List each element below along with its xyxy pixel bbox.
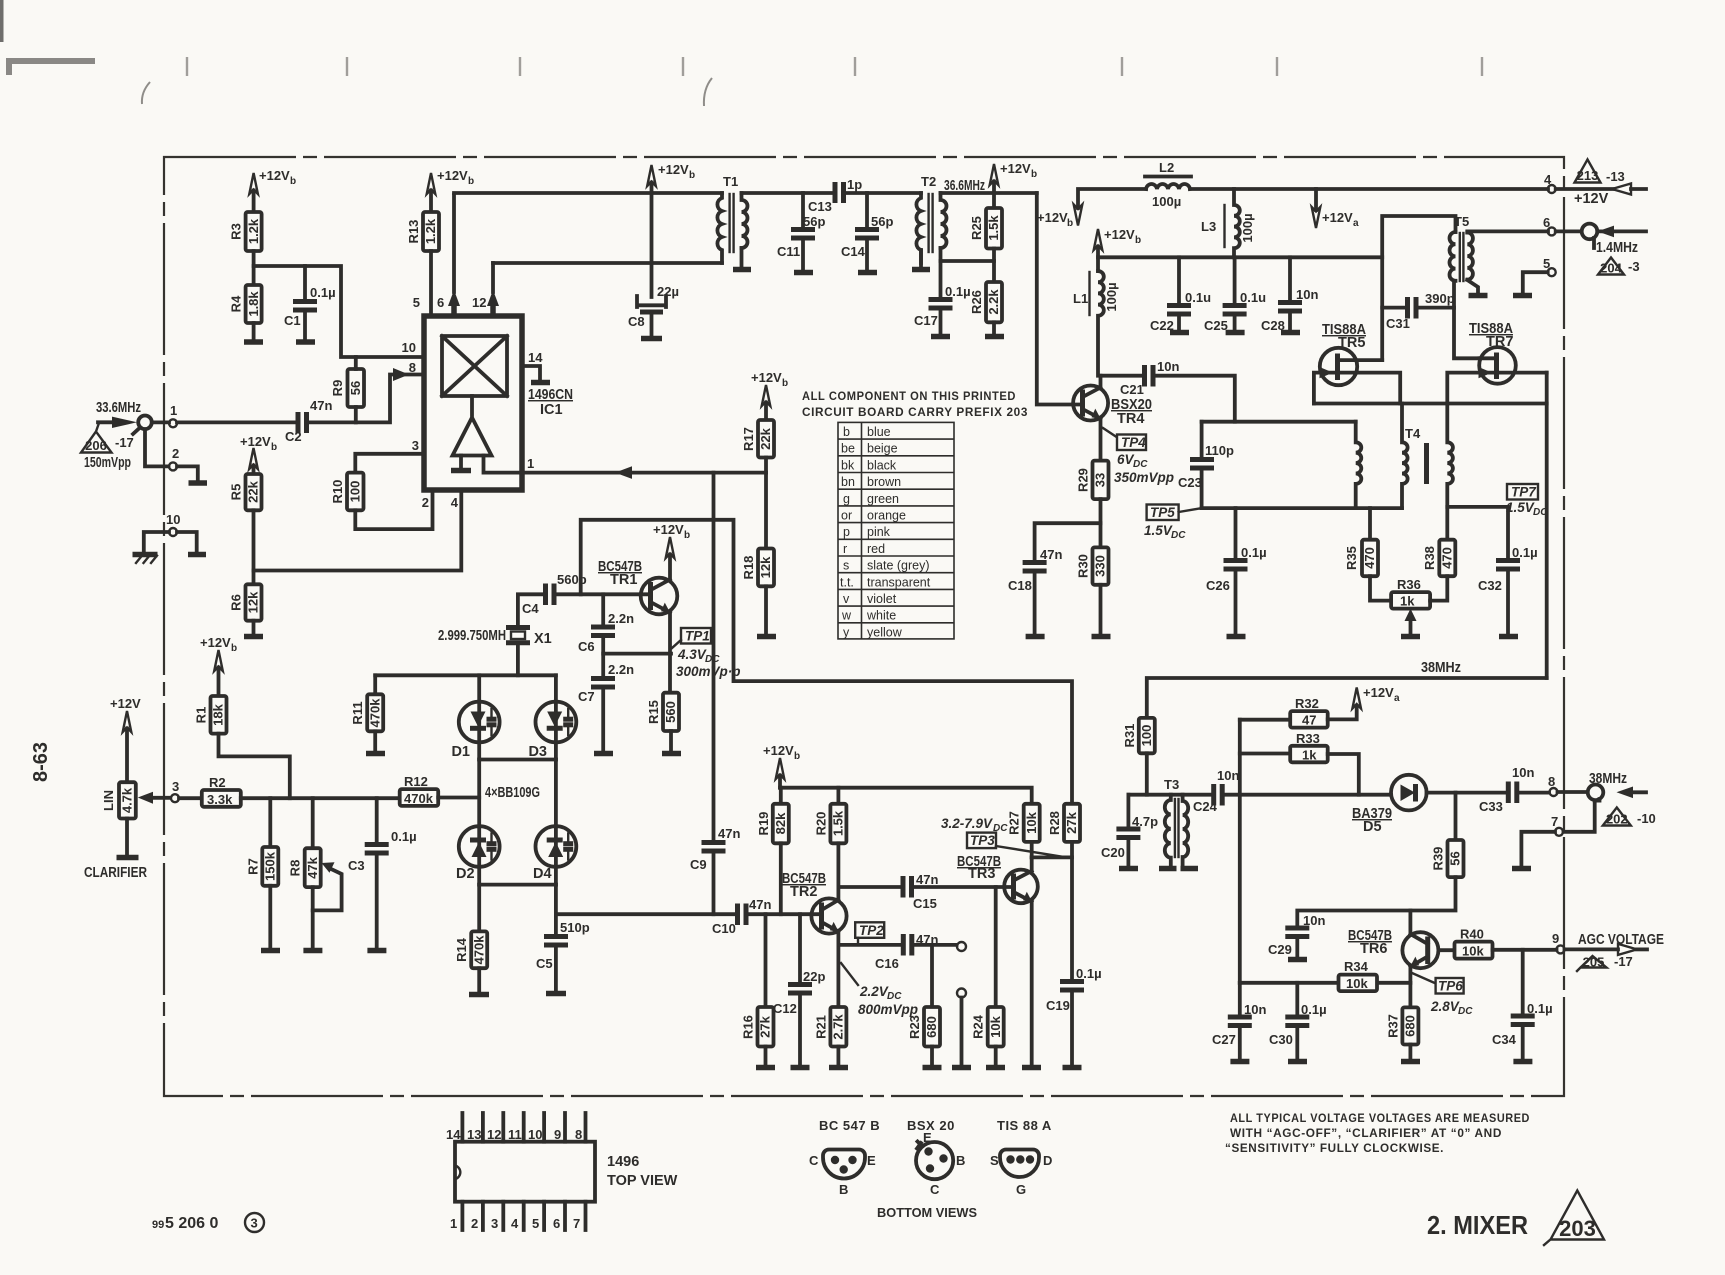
svg-text:4.3V: 4.3V [677,647,707,662]
capacitor C11 [777,214,825,259]
svg-text:TP6: TP6 [1438,979,1463,994]
+12Vb supply at R1 [200,635,237,696]
table row bn brown [841,475,901,489]
svg-text:b: b [684,530,690,541]
svg-text:+12V: +12V [1322,210,1353,225]
svg-text:330: 330 [1093,555,1108,577]
wire R16 top lead [764,914,768,1007]
wire collector node to R28 [1032,856,1072,860]
filled arrow 1.4MHz out [1598,226,1615,238]
svg-text:10k: 10k [1346,976,1368,991]
resistor R18 [741,549,774,587]
pin 12 arrow [487,263,499,316]
resistor R28 [1047,804,1080,842]
node terminal 10 [166,512,180,536]
wire terminal 2 stub [177,466,198,481]
svg-text:13: 13 [467,1127,481,1142]
varicap D3 [528,675,576,760]
svg-text:TR7: TR7 [1486,334,1513,350]
wire C6 junction drop [601,594,605,624]
resistor R10 [330,473,364,511]
wire C25 top lead [1233,257,1237,303]
pin 6 arrow [448,195,460,316]
svg-text:TP4: TP4 [1121,435,1146,450]
wire R20 bottom to TR2 collector [837,843,841,898]
wire R9 top to pin10 line [354,357,358,369]
svg-text:1: 1 [450,1216,457,1231]
ground bar C29 [1288,957,1307,963]
svg-text:+12V: +12V [1363,685,1394,700]
svg-text:1.5k: 1.5k [831,810,846,836]
svg-text:TR6: TR6 [1360,941,1387,957]
wire R38 to R36 [1430,576,1447,600]
resistor R38 [1422,540,1455,577]
wire C16 to link terminal [914,943,957,947]
svg-text:11: 11 [508,1127,522,1142]
svg-text:22k: 22k [758,427,773,449]
svg-text:C34: C34 [1492,1032,1517,1047]
pinout BSX20 can [916,1142,953,1180]
resistor R35 [1344,508,1378,576]
wire C34 to ground [1521,1027,1525,1060]
wire C20 to ground [1127,840,1131,867]
svg-text:R10: R10 [330,480,345,504]
svg-text:R16: R16 [741,1015,756,1039]
svg-text:56p: 56p [871,214,893,229]
ground bar terminal 7 [1512,866,1531,872]
TP6 voltage 2.8VDC [1430,999,1473,1017]
svg-text:yellow: yellow [867,625,903,639]
svg-text:TP2: TP2 [859,923,884,938]
svg-text:47n: 47n [310,398,332,413]
ground bar R24 [986,1065,1005,1071]
wire C9 drop from pin1 bus [712,473,716,840]
svg-text:R34: R34 [1344,959,1369,974]
resistor R15 [646,693,679,731]
registration tick 4 [682,57,684,76]
pin 14 stub and ground [522,350,550,383]
wire TR2 emitter to C16 [838,943,900,947]
registration tick 6 [1121,57,1123,76]
T3 top rail [1128,793,1210,797]
inductor L1 [1073,271,1119,376]
38MHz feed wire [1147,678,1547,718]
svg-text:D2: D2 [456,866,475,882]
table row tt transparent [840,575,931,589]
svg-text:E: E [923,1130,932,1145]
wire R27 to TR3 collector node [1030,842,1034,858]
DIP pin 7 [573,1202,586,1231]
svg-text:R29: R29 [1076,468,1091,492]
svg-text:22µ: 22µ [657,284,679,299]
svg-text:10n: 10n [1512,765,1534,780]
+12Vb supply at R5 [240,434,277,474]
wire jack to terminal 1 [152,420,169,424]
wire D1-D3 link [479,758,556,762]
ground bar C5 [546,991,566,997]
TR5 labels [1322,322,1366,351]
svg-text:22p: 22p [803,969,825,984]
registration tick 3 [519,57,521,76]
svg-text:R26: R26 [969,290,984,314]
capacitor C12 [773,969,825,1016]
svg-text:100µ: 100µ [1104,282,1119,311]
svg-text:8: 8 [575,1127,582,1142]
svg-text:2.2n: 2.2n [608,662,634,677]
svg-text:1k: 1k [1400,594,1415,609]
resistor R17 [741,420,774,458]
wire C25 to ground [1233,316,1237,330]
svg-text:y: y [843,625,850,639]
svg-text:E: E [867,1153,876,1168]
ground bar R11 [366,751,385,757]
svg-text:R5: R5 [229,484,244,501]
wire node to C18 [1035,523,1101,560]
sheet ref triangle 213 [1575,160,1601,184]
wire bus to R18 [764,473,768,549]
collector supply rail TR2 TR3 [780,788,1032,804]
svg-text:R30: R30 [1076,554,1091,578]
svg-text:99: 99 [152,1219,164,1231]
svg-text:X1: X1 [534,631,552,647]
capacitor C20 [1101,814,1158,860]
svg-text:D1: D1 [451,744,470,760]
svg-text:0.1µ: 0.1µ [1512,545,1538,560]
wire terminal 10 left [144,532,169,552]
svg-text:9: 9 [1552,931,1559,946]
svg-text:2: 2 [172,446,179,461]
wire C28 to ground [1288,313,1292,330]
coax connector 38MHz [1588,785,1604,801]
table row p pink [843,525,891,539]
table row g green [843,492,899,506]
svg-text:10: 10 [402,340,416,355]
wire R8 top lead [311,798,315,848]
svg-text:R37: R37 [1385,1014,1400,1038]
wire connector to terminal 7 [1564,801,1595,832]
wire C22 top lead [1177,257,1181,303]
resistor R11 [350,694,383,731]
wire C34 drop [1521,950,1525,1014]
svg-text:C3: C3 [348,858,365,873]
svg-text:B: B [956,1153,965,1168]
resistor R21 [813,1007,846,1047]
svg-text:R9: R9 [330,380,345,397]
wire R3 to R4 [252,251,256,285]
stray pencil arc 1 [142,82,150,104]
DIP pin 13 [467,1113,483,1142]
svg-text:v: v [843,592,850,606]
TR1 labels [598,559,642,588]
capacitor C3 [348,829,417,873]
wire C31 right lead to T5 bottom [1418,306,1454,310]
transformer T4 [1356,404,1453,540]
wire 38MHz drop on right [1545,373,1549,678]
ground bar stub 2 [189,480,208,486]
svg-text:DC: DC [887,991,902,1002]
svg-text:b: b [843,425,850,439]
wire C20 drop [1127,795,1131,827]
svg-text:C18: C18 [1008,578,1032,593]
svg-text:205: 205 [1583,955,1605,970]
svg-text:DC: DC [1458,1006,1473,1017]
svg-text:C13: C13 [808,199,832,214]
svg-text:green: green [867,492,899,506]
svg-text:R27: R27 [1007,811,1022,835]
wire jack down to terminal 2 [145,429,169,466]
input jack [133,416,152,435]
svg-text:27k: 27k [758,1015,773,1037]
wire R6 to ground [252,621,256,634]
+12Vb supply at R17 [751,370,788,420]
svg-text:213: 213 [1577,168,1599,183]
resistor R20 [813,804,846,844]
wire T2 secondary top to R25 node [941,191,1037,195]
wire R14 to ground [477,968,481,992]
wire pin 12 to T1 primary bottom [493,261,722,265]
svg-text:0.1u: 0.1u [1240,290,1266,305]
svg-text:T4: T4 [1405,426,1421,441]
svg-text:D4: D4 [533,866,552,882]
ground bar R8 [303,948,322,954]
svg-text:C27: C27 [1212,1032,1236,1047]
svg-text:C31: C31 [1386,316,1410,331]
ground bar T3 primary [1159,866,1177,872]
svg-text:TR4: TR4 [1117,411,1144,427]
wire R9 bottom to input line [354,407,358,422]
svg-text:C9: C9 [690,857,707,872]
capacitor C16 [875,932,938,971]
ground bar C1 [296,339,315,345]
DIP pin 14 [446,1113,462,1142]
wire node to IC1 pin 4 [254,490,462,571]
svg-text:D: D [1043,1153,1052,1168]
ground bar R37 [1401,1059,1420,1065]
wire C1 top lead [303,266,307,299]
wire R40 to terminal 9 [1493,948,1557,952]
wire TR5 drain riser to T5 [1382,216,1455,360]
source rail under FETs [1314,402,1547,406]
wire R33 left lead [1240,752,1290,756]
wire C12 to ground [798,995,802,1065]
wire R23 to ground [930,1047,934,1066]
wire TR2 emitter [837,932,841,1008]
svg-text:8-63: 8-63 [30,742,52,782]
ground bar C28 [1281,330,1300,336]
potentiometer LIN 4.7k [101,782,170,818]
svg-text:BC 547 B: BC 547 B [819,1118,880,1133]
wire C14 to ground [865,240,869,270]
wire T1 secondary bottom [740,248,744,267]
open arrow +12V out [1612,184,1631,195]
svg-text:9: 9 [554,1127,561,1142]
svg-text:R28: R28 [1047,811,1062,835]
wire R29 to R30 [1099,499,1103,547]
chassis ground [133,555,158,564]
svg-text:C10: C10 [712,921,736,936]
svg-text:b: b [782,378,788,389]
svg-text:TR3: TR3 [968,866,995,882]
capacitor C14 [841,214,893,259]
svg-text:6: 6 [1543,215,1550,230]
svg-text:8: 8 [1548,774,1555,789]
svg-text:R20: R20 [813,812,828,836]
svg-text:R33: R33 [1296,731,1320,746]
svg-text:R13: R13 [406,220,421,244]
svg-text:110p: 110p [1205,443,1234,458]
wire R24 to ground [994,1047,998,1066]
svg-text:56: 56 [1448,851,1463,865]
svg-text:R36: R36 [1397,577,1421,592]
wire connector out [1597,229,1646,233]
svg-text:R6: R6 [229,594,244,611]
svg-text:CLARIFIER: CLARIFIER [84,865,147,881]
wire T2 secondary bottom to R25R26 node [941,248,995,261]
table row w white [841,609,896,623]
svg-text:100: 100 [348,481,363,503]
svg-text:5: 5 [413,295,420,310]
svg-text:27k: 27k [1064,811,1079,833]
inductor L3 [1201,189,1255,257]
wire 36.6MHz down to TR4 base [1037,193,1083,405]
svg-text:R31: R31 [1122,724,1137,748]
wire C9 to audio rail [712,853,716,914]
svg-text:12k: 12k [758,556,773,578]
svg-text:47n: 47n [749,897,771,912]
ground bar C12 [791,1065,810,1071]
wire C13 to T2 [846,191,922,195]
varicap top rail [375,673,556,677]
wire D2-D4 link [479,883,556,887]
wire C26 top lead [1234,508,1238,558]
wire R35 to R36 [1370,576,1391,600]
svg-text:C: C [930,1182,940,1197]
resistor R19 [756,804,789,844]
capacitor C6 [578,611,634,654]
resistor R26 [969,282,1002,322]
svg-text:33: 33 [1093,473,1108,487]
svg-text:TP5: TP5 [1150,505,1175,520]
open arrow AGC out [1565,944,1648,955]
svg-text:R38: R38 [1422,546,1437,570]
svg-text:C2: C2 [285,429,302,444]
resistor R12 [400,774,439,806]
wire C5 to ground [554,947,558,991]
svg-text:3.2-7.9V: 3.2-7.9V [941,816,993,831]
svg-text:s: s [843,559,849,573]
wire T1 secondary to C13 [742,191,832,195]
wire R16 to ground [764,1047,768,1066]
ground bar inside IC1 [451,468,471,474]
wire R23 top lead [930,945,934,1007]
wire C12 top lead [798,914,802,982]
+12Va supply drop [1312,189,1359,229]
wire R19 bottom to base rail [779,843,783,914]
capacitor C27 [1212,1002,1266,1047]
transformer T3 [1164,777,1188,866]
svg-text:1.8k: 1.8k [246,291,261,317]
svg-text:1.5k: 1.5k [986,215,1001,241]
svg-text:ALL TYPICAL VOLTAGE VOLTAGES A: ALL TYPICAL VOLTAGE VOLTAGES ARE MEASURE… [1230,1113,1530,1125]
transistor TR4 BSX20 [1073,386,1108,421]
IC1 amp right leg to pin 1 [484,456,523,473]
registration tick 8 [1481,57,1483,76]
capacitor C32 [1478,545,1538,593]
registration corner mark [9,61,95,75]
wire C33 to terminal 8 [1519,791,1549,795]
svg-text:+12V: +12V [653,522,684,537]
svg-text:-10: -10 [1637,811,1656,826]
wire T5 primary bottom to TR7 gate [1454,282,1480,358]
wire R17 bottom to bus [764,458,768,473]
tank box left lower lead [1200,470,1204,508]
ground bar stub 10 [188,552,206,558]
test point TP3 [941,816,1064,857]
svg-text:R2: R2 [209,775,226,790]
table row bk black [841,458,897,472]
TP7 voltage 1.5VDC [1506,500,1548,518]
svg-text:C19: C19 [1046,998,1070,1013]
svg-text:2. MIXER: 2. MIXER [1427,1210,1528,1240]
wire R37 to ground [1409,1045,1413,1060]
wire R7 top lead [268,798,272,847]
wire D4 to audio node [554,885,558,936]
FET TR5 TIS88A [1320,348,1383,385]
wire R4 to ground [252,323,256,340]
IC1 multiplier cell [442,336,507,396]
ground bar C30 [1288,1059,1307,1065]
svg-text:TOP VIEW: TOP VIEW [607,1173,678,1189]
TR2 labels [782,871,826,900]
capacitor C15 [903,872,938,911]
wire L2 to terminal 4 [1190,187,1548,191]
svg-text:or: or [841,509,852,523]
svg-text:6V: 6V [1117,452,1135,467]
svg-text:6: 6 [437,295,444,310]
node terminal 6 [1543,215,1556,235]
capacitor C2 [285,398,332,444]
resistor R6 [229,584,262,620]
svg-text:R7: R7 [245,858,260,875]
+12Vb supply at TR2 rail [763,743,800,788]
svg-text:14: 14 [528,350,543,365]
svg-text:2: 2 [471,1216,478,1231]
svg-text:C14: C14 [841,244,866,259]
svg-text:a: a [1394,693,1400,704]
wire C3 to ground [375,855,379,948]
ground bar R21 [829,1065,848,1071]
svg-text:1: 1 [170,403,177,418]
IC1 1496CN body [424,316,522,490]
wire TR3 collector [1030,857,1034,871]
tank box bottom wire [1202,506,1402,510]
resistor R27 [1007,804,1040,842]
ground bar R6 [244,634,263,640]
resistor R9 [330,369,364,407]
svg-text:18k: 18k [211,703,226,725]
svg-text:56: 56 [348,381,363,395]
svg-text:C30: C30 [1269,1032,1293,1047]
resistor R30 [1076,547,1109,584]
svg-text:LIN: LIN [101,790,116,811]
svg-text:6: 6 [553,1216,560,1231]
wire terminal 6 to connector [1556,229,1581,233]
resistor R16 [741,1007,774,1047]
svg-text:bk: bk [841,458,855,472]
wire D5 to C33 [1427,791,1505,795]
ground bar C11 [794,270,813,276]
capacitor C34 [1492,1001,1553,1047]
